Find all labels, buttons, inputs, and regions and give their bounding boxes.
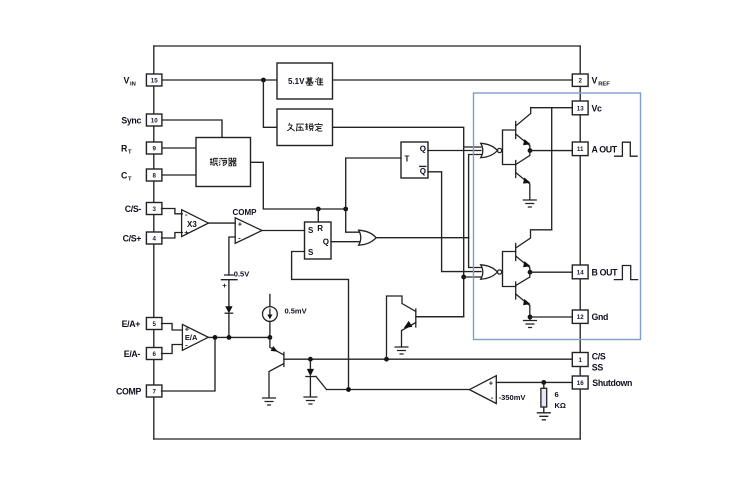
svg-text:Sync: Sync <box>121 116 141 126</box>
node clock line R branch <box>316 207 321 212</box>
op-amp X3 current sense amplifier <box>182 210 209 237</box>
svg-text:+: + <box>184 228 189 237</box>
node SCR anode junction <box>308 357 313 362</box>
glyph zhen (shake) <box>210 158 218 166</box>
wire NOR A output splitter to bases <box>502 130 516 165</box>
svg-text:Shutdown: Shutdown <box>592 378 632 388</box>
wire latch lower S input from shutdown line <box>292 252 349 390</box>
svg-text:16: 16 <box>577 380 584 387</box>
svg-text:9: 9 <box>152 145 156 152</box>
wire Ct pin to oscillator <box>162 174 197 176</box>
glyph ji (base) <box>305 77 313 85</box>
wire diode to E/A output node <box>228 313 230 337</box>
waveform A OUT pulse <box>615 142 638 156</box>
svg-text:3: 3 <box>152 206 156 213</box>
node E/A pin7 junction <box>213 335 218 340</box>
block 5.1V reference <box>277 63 333 99</box>
thyristor D2 <box>309 359 311 369</box>
wire left pin bus <box>153 46 155 439</box>
svg-text:V: V <box>124 75 130 85</box>
waveform B OUT pulse <box>614 266 637 280</box>
wire battery to diode <box>228 280 230 307</box>
wire Sync pin to oscillator top <box>162 120 223 138</box>
svg-text:-: - <box>491 393 494 402</box>
svg-text:T: T <box>405 155 410 164</box>
svg-text:12: 12 <box>577 314 584 321</box>
pin 11 A OUT <box>572 142 588 156</box>
svg-text:S: S <box>308 226 314 235</box>
nor-gate B <box>481 265 498 279</box>
glyph ding (fix) <box>315 123 322 131</box>
wire comparator plus input to pin 16 row <box>496 381 572 383</box>
wire COMP inverting input down to 0.5V source <box>229 237 235 275</box>
wire OR output to NOR splitter <box>376 237 469 239</box>
wire clock up to T flip-flop input <box>346 158 401 209</box>
svg-text:C/S-: C/S- <box>125 204 142 214</box>
pin 8 Ct <box>146 169 162 181</box>
svg-text:IN: IN <box>130 82 136 88</box>
node B ground <box>528 315 533 320</box>
block oscillator <box>196 138 251 187</box>
node shutdown latch junction <box>346 387 351 392</box>
op-amp E/A error amplifier <box>182 324 208 350</box>
wire Vin down to UVLO input <box>263 80 277 127</box>
latch SRQ <box>305 222 332 259</box>
svg-text:KΩ: KΩ <box>555 401 566 410</box>
svg-text:Gnd: Gnd <box>592 312 609 322</box>
svg-text:2: 2 <box>578 78 582 85</box>
svg-text:0.5mV: 0.5mV <box>285 306 307 315</box>
wire top frame <box>154 45 580 47</box>
pin 7 COMP <box>146 385 162 397</box>
ground QS1 collector <box>263 398 276 405</box>
svg-text:E/A-: E/A- <box>124 349 141 359</box>
node A output <box>528 148 533 153</box>
wire latch Q output to OR gate <box>331 241 360 243</box>
svg-text:B OUT: B OUT <box>592 267 619 277</box>
glyph ya (pressure) <box>296 124 304 131</box>
node Vin junction <box>261 78 266 83</box>
svg-text:+: + <box>222 281 227 290</box>
node E/A source junction <box>268 335 273 340</box>
wire pin 5 to E/A non-inverting input <box>162 324 183 331</box>
ground QB emitter <box>529 317 531 320</box>
pin 2 Vref <box>572 74 588 86</box>
wire branch to NOR B bottom input <box>464 276 481 278</box>
wire bottom frame <box>154 438 580 440</box>
wire UVLO vertical continue to shutdown transistor base <box>417 147 464 317</box>
svg-text:-: - <box>185 210 188 219</box>
svg-text:R: R <box>317 224 323 233</box>
pin 5 EA+ <box>146 318 162 330</box>
ground QS2 emitter <box>395 347 408 354</box>
transistor QA low <box>515 161 517 178</box>
svg-text:14: 14 <box>577 269 584 276</box>
svg-text:15: 15 <box>151 77 158 84</box>
svg-text:5.1V: 5.1V <box>288 77 305 86</box>
ground thyristor <box>304 397 317 404</box>
wire pin 4 to X3 non-inverting input <box>162 233 183 239</box>
svg-text:6: 6 <box>152 351 156 358</box>
ground 6K resistor <box>537 413 550 420</box>
svg-text:SS: SS <box>592 363 604 373</box>
wire Vc line pin 13 to QA collector <box>531 107 573 109</box>
svg-text:10: 10 <box>151 117 158 124</box>
node clock line T branch <box>343 207 348 212</box>
wire UVLO output to right then down to NOR A top input <box>333 127 482 147</box>
svg-text:S: S <box>308 248 314 257</box>
wire X3 output to comparator <box>208 222 235 224</box>
transistor QS1 (PNP buffer) <box>283 352 285 366</box>
svg-text:E/A+: E/A+ <box>122 319 141 329</box>
svg-text:COMP: COMP <box>233 208 258 217</box>
flip-flop T <box>401 142 428 178</box>
svg-text:A OUT: A OUT <box>592 144 618 154</box>
svg-text:T: T <box>128 177 132 183</box>
wire Vin row to 5.1V ref and Vref pin 2 <box>162 79 574 81</box>
svg-text:+: + <box>185 325 190 334</box>
wire B OUT to pin 14 <box>530 271 572 273</box>
pin 16 Shutdown <box>572 376 588 389</box>
pin 10 Sync <box>146 114 162 126</box>
nor-gate A <box>481 143 498 157</box>
node lower NOR branch <box>461 275 466 280</box>
pin 6 EA- <box>146 348 162 360</box>
transistor QB high <box>515 244 517 261</box>
wire OR splitter vertical to NOR A bottom input and NOR B top input <box>469 155 481 268</box>
svg-text:Q: Q <box>323 238 329 247</box>
svg-text:13: 13 <box>577 105 584 112</box>
pin 1 CS SS <box>572 353 588 367</box>
current source 0.5mV <box>269 295 271 338</box>
svg-text:Q: Q <box>420 144 426 153</box>
glyph suo (lock) <box>305 123 313 131</box>
transistor QB low <box>515 282 517 299</box>
svg-text:C/S: C/S <box>592 352 606 362</box>
comparator -350mV shutdown <box>469 376 496 404</box>
diode D1 <box>225 306 232 313</box>
transistor QA high <box>515 122 517 139</box>
glyph qian (owe) <box>287 123 295 131</box>
wire A OUT to pin 11 <box>530 150 572 152</box>
output stage blue box <box>474 93 641 340</box>
svg-text:C/S+: C/S+ <box>123 234 142 244</box>
svg-text:+: + <box>489 379 494 388</box>
svg-text:8: 8 <box>152 172 156 179</box>
svg-text:7: 7 <box>152 388 156 395</box>
ground QA emitter <box>523 200 536 207</box>
block UVLO (undervoltage lockout) <box>277 109 333 146</box>
wire COMP output to latch S input <box>262 230 305 232</box>
svg-text:Q: Q <box>420 167 426 176</box>
wire clock down to OR gate top input <box>346 209 360 232</box>
transistor QS2 shutdown (PNP) <box>415 309 417 327</box>
glyph zhun (standard) <box>315 77 323 85</box>
svg-text:REF: REF <box>598 82 610 88</box>
wire T-FF Qbar output to NOR B middle input <box>428 172 481 272</box>
wire R drop into latch top <box>317 209 319 222</box>
svg-text:0.5V: 0.5V <box>234 269 249 278</box>
svg-text:+: + <box>238 220 243 229</box>
pin 9 Rt <box>146 142 162 154</box>
node B output <box>528 270 533 275</box>
wire right pin bus <box>579 46 581 439</box>
battery 0.5V offset <box>221 275 237 280</box>
glyph qi (device) <box>228 158 236 166</box>
wire Rt pin to oscillator <box>162 147 197 149</box>
wire soft-start line A to pin 1 <box>284 358 572 360</box>
wire NOR B output splitter to bases <box>502 252 516 287</box>
glyph dang (swing) <box>219 158 227 166</box>
svg-text:5: 5 <box>152 321 156 328</box>
node shutdown collector junction <box>384 357 389 362</box>
wire pin 3 to X3 inverting input <box>162 209 183 214</box>
svg-text:Vc: Vc <box>592 103 603 113</box>
svg-text:6: 6 <box>555 390 559 399</box>
wire ground node to pin 12 <box>530 316 572 318</box>
wire shutdown line B comparator output <box>327 389 470 391</box>
pin 12 Gnd <box>572 310 588 323</box>
resistor 6 KOhm <box>543 382 545 412</box>
pin 3 CS- <box>146 203 162 215</box>
svg-text:1: 1 <box>578 357 582 364</box>
wire T-FF Q output to NOR A middle input <box>428 150 481 152</box>
svg-text:COMP: COMP <box>116 387 141 397</box>
svg-text:4: 4 <box>152 235 156 242</box>
wire Vc rail down to B stage <box>551 108 553 230</box>
pin 13 Vc <box>572 101 588 115</box>
svg-text:-350mV: -350mV <box>499 393 526 402</box>
svg-text:T: T <box>128 150 132 156</box>
pin 14 B OUT <box>572 265 588 279</box>
or-gate U2 <box>359 230 377 245</box>
wire pin 7 COMP feedback up to E/A output <box>162 337 216 391</box>
wire pin 6 to E/A inverting input <box>162 345 183 354</box>
svg-text:V: V <box>592 75 598 85</box>
wire oscillator output down to clock line <box>251 162 346 209</box>
svg-text:C: C <box>121 170 128 180</box>
pin 4 CS+ <box>146 232 162 244</box>
node 6K resistor junction <box>541 380 546 385</box>
svg-text:11: 11 <box>577 146 584 153</box>
node E/A diode junction <box>227 335 232 340</box>
svg-text:R: R <box>121 143 128 153</box>
wire E/A output line <box>208 336 270 338</box>
pin 15 Vin <box>146 74 162 86</box>
